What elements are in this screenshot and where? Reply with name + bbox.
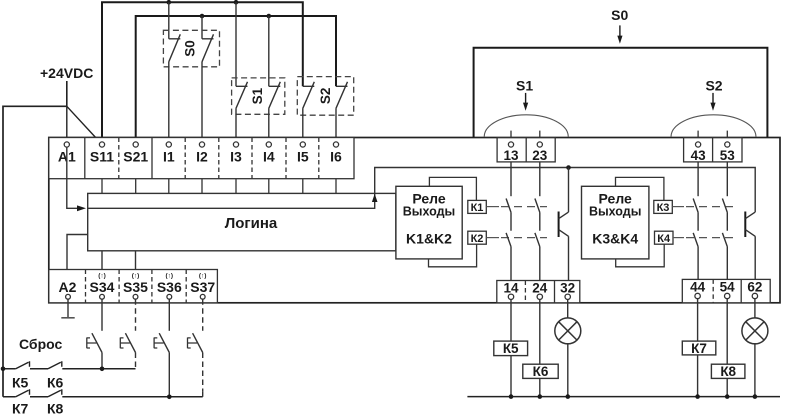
svg-text:К2: К2 [471,233,484,245]
wire A1 internal to logic [67,147,78,208]
svg-text:S1: S1 [250,87,265,104]
divider I2|I3 (dashed) [218,138,220,179]
switch S1 contact b (NC) [269,82,281,142]
terminal box 44 54 62 [682,279,770,302]
transistor output 32 [568,168,570,213]
contacts channel 43-44 (K3,K4 in series) [693,199,698,280]
terminal I1 [166,142,171,147]
terminal A1 [64,142,69,147]
switch S1 contact a (NC) [236,82,248,142]
load wire 44 to bus [697,299,699,397]
svg-text:S36: S36 [157,279,182,295]
switch S0 contact a (NC) [169,34,181,142]
wire +24VDC vertical feed [66,81,68,106]
svg-text:I1: I1 [163,149,175,165]
lead 43 to contacts [697,162,699,196]
indicator lamp at 32 [555,318,581,344]
svg-text:К5: К5 [503,341,519,356]
wire A2 from logic [67,235,88,270]
coil K4 box [655,231,674,244]
junction dot 14/bus [509,394,514,399]
svg-text:К6: К6 [533,364,549,379]
svg-text:I4: I4 [263,149,275,165]
junction dot 54/bus [725,394,730,399]
terminal box 13 23 [497,138,555,162]
contacts channel 13-14 (K1,K2 in series) [506,199,511,281]
wire I1 drop [168,2,170,39]
svg-text:44: 44 [690,280,706,295]
svg-text:К8: К8 [47,401,64,414]
lead 53 to contacts [726,162,728,196]
junction dot 32/bus [566,394,571,399]
wire bridge box1 to K1 [429,177,476,200]
reset row 2 wire (K7 K8 series) [3,396,203,398]
svg-text:A2: A2 [59,279,77,295]
coil K3 box [654,200,673,213]
contacts channel 53-54 (K3,K4 in series) [722,199,727,280]
svg-text:К7: К7 [12,401,29,414]
svg-text:Выходы: Выходы [403,204,455,218]
wire bus B (S21 to I2 I4 I6) [136,16,336,142]
svg-text:I3: I3 [230,149,242,165]
A2 ground symbol [67,299,69,318]
S1 dome plunger ticks [510,131,512,142]
svg-text:S0: S0 [182,40,197,57]
contactor coil K8 [711,364,745,378]
coil K1 box [468,200,487,213]
wire logic pass-through to semiconductor supply [88,168,756,213]
wire diagonal +24VDC to S11 [67,106,101,143]
terminal I3 [233,142,238,147]
terminal box 43 53 [684,138,742,162]
divider I4|I5 (dashed) [285,138,287,179]
svg-text:S37: S37 [190,279,215,295]
wire under-bridge box2 to K4 [616,244,665,267]
switch S2 dashed box [297,77,353,116]
wire I2 drop [201,16,203,39]
terminal I6 [333,142,338,147]
divider I5|I6 (dashed) [318,138,320,179]
wire left supply rail to reset rows [3,106,67,397]
svg-text:К5: К5 [12,375,29,391]
switch S2 contact b (NC) [336,82,348,142]
terminal box 14 24 32 [497,281,580,303]
svg-text:23: 23 [532,148,548,163]
junction dot S36/row2 [167,395,172,400]
junction dot I4 on bus B [267,14,272,19]
divider I3|I4 (dashed) [251,138,253,179]
terminal S21 [133,142,138,147]
stub S35 from logic [135,251,137,270]
S2 actuation arrow [712,93,714,104]
svg-text:К4: К4 [657,233,671,245]
contactor coil K6 [523,364,558,378]
wire bridge box2 to K3 [616,177,664,200]
svg-text:S1: S1 [516,77,533,93]
terminal 43 [696,142,701,147]
reset button S35 (dashed option) [135,299,137,331]
junction dot 44/bus [695,394,700,399]
bottom return bus [467,396,780,398]
linkage K1 row [486,206,499,208]
relay outputs box K1K2 [396,186,462,259]
terminal S11 [99,142,104,147]
junction dot I1 on bus A [167,0,172,5]
svg-text:+24VDC: +24VDC [40,65,93,81]
junction dot S34/row1 [100,367,105,372]
reset button S34 [101,299,103,331]
svg-text:К7: К7 [691,341,707,356]
load wire 32 to lamp [567,300,569,319]
terminal 53 [725,142,730,147]
reset button S36 [168,299,170,331]
svg-text:К8: К8 [720,364,736,379]
load wire 54 to bus [726,299,728,397]
coil K2 box [468,231,487,244]
svg-text:54: 54 [720,280,736,295]
junction dot 24/bus [538,394,543,399]
lamp 62 to bus [754,343,756,397]
lead 23 to contacts [539,162,541,196]
divider I1|I2 (dashed) [184,138,186,179]
divider S34|S35 (dashed) [118,270,120,303]
load wire 62 to lamp [754,299,756,319]
load wire 24 to bus [539,300,541,397]
svg-text:K1&K2: K1&K2 [406,231,452,247]
junction dot 62/bus [753,394,758,399]
linkage K3 row [672,206,684,208]
switch S0 contact b (NC) [202,34,214,142]
svg-text:Логина: Логина [225,215,278,232]
reset row 1 wire (K5 K6 series) [3,368,136,370]
divider A2|S34 (dashed) [85,270,87,303]
svg-text:K3&K4: K3&K4 [592,231,638,247]
junction dot I2 on bus B [200,14,205,19]
S2 actuator dome [671,115,756,137]
lamp 32 to bus [567,343,569,397]
svg-text:Сброс: Сброс [19,336,62,352]
svg-text:S35: S35 [123,279,148,295]
linkage K2 row [486,237,499,239]
S1 actuation arrow [525,93,527,104]
contacts channel 23-24 (K1,K2 in series) [535,199,540,281]
stub S34 from logic [101,251,103,270]
reset button S37 (dashed option) [202,299,204,331]
stubs from strip to logic box [102,179,336,194]
svg-text:14: 14 [503,280,519,295]
svg-text:53: 53 [720,148,736,163]
svg-text:К3: К3 [657,202,670,214]
svg-text:S2: S2 [705,77,722,93]
indicator lamp at 62 [742,318,768,344]
terminal I2 [199,142,204,147]
junction dot I3 on bus A [234,0,239,5]
svg-text:Выходы: Выходы [589,204,641,218]
transistor output 62 [744,212,746,238]
svg-text:13: 13 [503,148,519,163]
contact K8 [48,389,62,397]
divider S35|S36 (dashed) [151,270,153,303]
svg-text:S34: S34 [90,279,115,295]
divider S36|S37 (dashed) [185,270,187,303]
svg-text:43: 43 [691,148,707,163]
switch S1 dashed box [232,78,285,114]
junction dot rail/row1 [1,367,6,372]
arrowhead into logic box [77,205,86,211]
emergency-stop S0 zone box [474,48,768,138]
top terminal strip box [49,138,354,179]
svg-text:S21: S21 [123,149,148,165]
linkage K4 row [673,237,684,239]
wire A1 drop [66,106,68,142]
safety module outer box [49,138,780,303]
wire I3 drop [235,2,237,86]
svg-text:32: 32 [560,280,575,295]
svg-text:К6: К6 [47,375,64,391]
terminal I4 [266,142,271,147]
contact K6 [48,361,62,369]
terminal 23 [537,142,542,147]
svg-text:I6: I6 [330,149,342,165]
svg-text:К1: К1 [471,202,484,214]
logic box [88,193,396,250]
switch S2 contact a (NC) [303,82,315,142]
terminal 13 [508,142,513,147]
wire bus A (S11 to I1 I3 I5) [102,2,303,142]
load wire 14 to bus [510,300,512,397]
wire under-bridge box1 to K2 [429,244,477,267]
arrowhead up out of logic box [372,194,378,202]
S1 actuator dome [484,115,568,137]
svg-text:S2: S2 [318,88,333,105]
divider A1|S11 [84,138,86,179]
divider S11|S21 (dashed) [118,138,120,179]
bottom terminal strip box [49,270,218,303]
relay outputs box K3K4 [582,186,649,259]
S2 dome plunger ticks [697,131,699,142]
contactor coil K7 [682,341,716,355]
junction dot semiconductor 32 supply [566,165,571,170]
wire I4 drop [268,16,270,86]
svg-text:I2: I2 [196,149,208,165]
divider S21|I1 [151,138,153,179]
contact K7 [16,389,30,397]
svg-text:62: 62 [747,280,762,295]
switch S0 dashed box [163,30,219,67]
svg-text:S11: S11 [90,149,114,165]
svg-text:S0: S0 [611,7,628,23]
lead 13 to contacts [510,162,512,196]
contact K5 [16,361,30,369]
svg-text:24: 24 [532,280,548,295]
contactor coil K5 [494,341,528,356]
svg-text:I5: I5 [297,149,309,165]
S0 actuation arrow [619,25,621,37]
terminal I5 [300,142,305,147]
